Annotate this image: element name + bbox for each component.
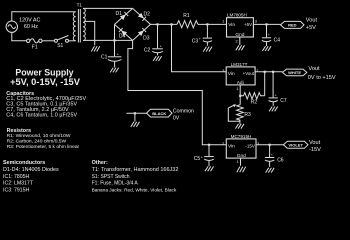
svg-text:1: 1 (222, 20, 224, 24)
svg-text:T1: Transformer, Hammond 166J3: T1: Transformer, Hammond 166J32 (92, 167, 179, 173)
wire secondary bottom rail (83, 39, 133, 41)
wire AC top to transformer primary top (12, 12, 76, 21)
svg-text:+5V, 0-15V, -15V: +5V, 0-15V, -15V (10, 77, 81, 87)
capacitor C4 (262, 24, 280, 46)
op-amp U1 regulator LM7805 (227, 13, 254, 39)
wire center tap (84, 21, 95, 45)
wire U3 output (256, 144, 283, 146)
svg-text:IC2: LM317T: IC2: LM317T (3, 181, 34, 187)
wire U2 output (255, 71, 282, 73)
svg-text:1: 1 (237, 160, 239, 164)
svg-text:+5V: +5V (244, 22, 252, 27)
svg-text:LM317T: LM317T (231, 62, 248, 67)
svg-text:F1: Fuse, MDL-3/4 A: F1: Fuse, MDL-3/4 A (92, 181, 139, 187)
svg-text:+5V: +5V (306, 25, 316, 31)
svg-text:R2: R2 (251, 100, 258, 106)
svg-text:+: + (199, 37, 201, 41)
wire negative path bridge bottom to 7915 input (128, 40, 226, 144)
wire R1 to 7805 (198, 23, 227, 25)
node junction C7 tap (272, 71, 274, 73)
wire U3 gnd lead (240, 158, 242, 166)
wire U1 output (253, 23, 280, 25)
title Power Supply (10, 67, 81, 87)
svg-text:Vin: Vin (228, 22, 235, 28)
svg-text:Resistors: Resistors (7, 128, 32, 134)
ground C3 (203, 47, 212, 52)
label Other parts list (92, 160, 179, 193)
op-amp U3 regulator MC7915 (226, 134, 256, 159)
svg-text:-15V: -15V (246, 143, 255, 148)
svg-text:+: + (275, 93, 277, 97)
ground C4 (262, 46, 271, 51)
diode D3 (133, 24, 151, 41)
svg-text:C5: C5 (194, 156, 201, 162)
svg-text:D2: D2 (144, 11, 151, 17)
svg-text:+: + (201, 155, 203, 159)
svg-text:120V AC: 120V AC (19, 18, 40, 24)
svg-text:R1: Wirewound, 10 ohm/10W: R1: Wirewound, 10 ohm/10W (7, 133, 71, 139)
ground C5 (205, 166, 214, 171)
svg-text:+Vout: +Vout (243, 71, 255, 76)
wire AC bottom to fuse (12, 32, 27, 40)
svg-text:BLACK: BLACK (152, 111, 166, 116)
node junction adj / R2 (239, 95, 241, 97)
switch S1 (54, 36, 68, 50)
wire LM317 feed (172, 24, 227, 71)
svg-text:C7: C7 (280, 98, 287, 104)
resistor R1 (177, 13, 198, 28)
svg-text:60 Hz: 60 Hz (24, 24, 38, 30)
label Vout +5V (306, 18, 318, 32)
svg-text:Semiconductors: Semiconductors (3, 160, 45, 166)
svg-text:Power Supply: Power Supply (15, 67, 73, 77)
svg-text:R3: Potentiometer, 5 k ohm lin: R3: Potentiometer, 5 k ohm linear (7, 144, 80, 150)
diode D4 (115, 24, 133, 40)
ground center tap (91, 46, 100, 51)
svg-text:Vout: Vout (309, 140, 321, 146)
svg-text:2: 2 (222, 142, 224, 146)
svg-text:IC3: 7915H: IC3: 7915H (3, 187, 29, 193)
wire common ground lead (134, 113, 136, 121)
svg-text:D3: D3 (143, 35, 150, 41)
svg-text:+: + (268, 33, 270, 37)
svg-text:Banana Jacks: Red, White, Viol: Banana Jacks: Red, White, Violet, Black (92, 187, 177, 193)
svg-text:+: + (117, 52, 119, 56)
svg-text:T1: T1 (77, 3, 83, 8)
ground common (131, 122, 140, 127)
wire secondary top to bridge top vertex (83, 7, 133, 9)
svg-text:Vin: Vin (228, 71, 235, 77)
label Semiconductors parts list (3, 160, 59, 193)
svg-text:R1: R1 (183, 13, 190, 19)
ground U3 (237, 167, 246, 173)
node banana jack VIOLET (283, 141, 308, 148)
node junction LM317 feed (170, 23, 172, 25)
ground U1 (236, 45, 245, 50)
capacitor C6 (265, 145, 284, 167)
svg-text:Common: Common (173, 108, 194, 114)
op-amp U2 regulator LM317T (226, 62, 255, 86)
svg-text:3: 3 (222, 69, 224, 73)
svg-text:R2: Carbon, 240 ohm/0.5W: R2: Carbon, 240 ohm/0.5W (7, 139, 67, 145)
node junction common ground (134, 112, 136, 114)
diode D1 (115, 8, 133, 24)
svg-text:Vout: Vout (306, 18, 318, 24)
diode D2 (133, 8, 151, 24)
node junction C3 tap (206, 23, 208, 25)
svg-text:R3: R3 (244, 112, 251, 118)
label Common 0V (173, 108, 194, 121)
wire U1 gnd lead (239, 37, 241, 45)
wire common stub (126, 112, 146, 114)
svg-text:0V to +15V: 0V to +15V (308, 75, 336, 81)
svg-text:D4: D4 (119, 34, 126, 40)
svg-text:IC1: 7805H: IC1: 7805H (3, 174, 29, 180)
node junction C2 tap (156, 23, 158, 25)
svg-text:S1: SPST Switch: S1: SPST Switch (92, 174, 130, 180)
node junction C4 tap (265, 23, 267, 25)
svg-text:+: + (271, 153, 273, 157)
svg-text:0V: 0V (173, 115, 180, 121)
node banana jack RED (281, 21, 305, 28)
ground C1 (110, 68, 119, 73)
label Capacitors parts list (6, 91, 86, 118)
svg-text:+: + (160, 45, 162, 49)
ground C6 (266, 168, 275, 173)
resistor R2 (240, 93, 265, 106)
svg-text:C1: C1 (101, 55, 108, 61)
node banana jack BLACK (147, 109, 173, 117)
capacitor C7 (269, 72, 287, 106)
svg-text:S1: S1 (57, 43, 63, 49)
wire switch to transformer primary bottom (69, 40, 76, 42)
svg-text:Vin: Vin (228, 143, 235, 149)
transformer T1 (73, 3, 85, 43)
wire U2 adj lead (239, 85, 241, 105)
svg-text:C4: C4 (274, 38, 281, 44)
svg-text:C6: C6 (277, 158, 284, 164)
label Vout 0V to +15V (308, 66, 336, 81)
svg-text:WHITE: WHITE (288, 70, 301, 75)
svg-text:D1-D4: 1N4005 Diodes: D1-D4: 1N4005 Diodes (3, 167, 59, 173)
label Vout -15V (309, 140, 321, 153)
wire fuse to switch (42, 40, 54, 42)
capacitor C1 (101, 40, 121, 67)
wire positive rail bridge right vertex to R1 (151, 23, 178, 25)
svg-text:LM7805H: LM7805H (227, 13, 247, 18)
AC source V1 (6, 21, 17, 32)
node junction at C1 tap (113, 39, 115, 41)
wire riser to bridge left vertex (114, 24, 116, 40)
svg-text:Other:: Other: (92, 160, 108, 166)
svg-text:C4, C6 Tantalum, 1.0 µF/25V: C4, C6 Tantalum, 1.0 µF/25V (6, 112, 77, 118)
capacitor C5 (194, 145, 214, 166)
svg-text:F1: F1 (32, 44, 38, 50)
svg-text:-15V: -15V (309, 147, 321, 153)
svg-text:3: 3 (255, 20, 257, 24)
svg-text:C3: C3 (192, 38, 199, 44)
svg-text:VIOLET: VIOLET (288, 143, 303, 148)
wire R2 riser to output (264, 72, 266, 96)
capacitor C3 (192, 24, 212, 45)
ground C7 (269, 107, 278, 112)
fuse F1 (27, 39, 43, 51)
node junction R2 riser (264, 71, 266, 73)
label 120V AC 60 Hz (19, 18, 40, 30)
svg-text:RED: RED (288, 23, 297, 28)
capacitor C2 (144, 24, 163, 55)
svg-text:MC7915H: MC7915H (231, 134, 252, 139)
ground R3 (235, 124, 244, 129)
label Resistors parts list (7, 128, 80, 150)
potentiometer R3 (228, 104, 251, 123)
svg-text:Gnd: Gnd (237, 153, 246, 159)
svg-text:1: 1 (236, 87, 238, 91)
svg-text:2: 2 (236, 39, 238, 43)
node junction C6 tap (269, 144, 271, 146)
svg-text:C2: C2 (144, 48, 151, 54)
svg-text:D1: D1 (116, 11, 123, 17)
node junction C5 tap (208, 144, 210, 146)
svg-text:Vout: Vout (308, 66, 320, 72)
node banana jack WHITE (283, 69, 307, 76)
ground C2 (153, 56, 162, 61)
